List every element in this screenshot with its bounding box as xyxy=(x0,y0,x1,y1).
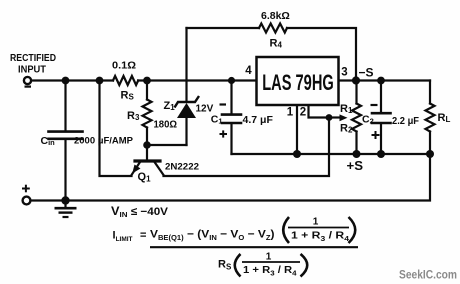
node: pin2 / wiper xyxy=(326,114,333,121)
svg-text:LAS 79HG: LAS 79HG xyxy=(262,70,334,95)
node: C2 top xyxy=(377,77,385,85)
node: R3 top xyxy=(143,77,151,85)
transistor Q1 base bar xyxy=(135,159,160,162)
svg-text:1 + R3 / R4: 1 + R3 / R4 xyxy=(243,265,297,278)
wire: C2 top lead xyxy=(380,81,382,113)
ground stub xyxy=(64,201,66,208)
input terminal minus xyxy=(24,77,31,84)
wire: -S rail from pin 3 xyxy=(339,79,430,81)
wire: input rail left segment xyxy=(31,79,113,81)
svg-text:1: 1 xyxy=(313,217,319,228)
resistor RL zigzag xyxy=(426,104,435,132)
formula numerator big right paren xyxy=(349,217,356,243)
svg-text:2.2 μF: 2.2 μF xyxy=(392,115,420,127)
svg-text:+S: +S xyxy=(347,158,364,173)
node: C1 tap xyxy=(228,77,235,84)
node: pin1 on +S rail xyxy=(293,150,301,158)
svg-text:1 + R3 / R4: 1 + R3 / R4 xyxy=(291,231,349,244)
formula denominator big left paren xyxy=(235,254,241,277)
ground symbol bars xyxy=(55,208,77,217)
node: base node xyxy=(143,141,151,149)
svg-text:−S: −S xyxy=(359,66,374,80)
resistor RL leads xyxy=(429,81,431,104)
potentiometer R1R2 zigzag xyxy=(352,104,361,132)
node: -S at R4 xyxy=(352,76,360,84)
wire: top wire left of R4 xyxy=(187,27,260,29)
label C1 minus xyxy=(220,103,227,105)
transistor Q1 collector diagonal xyxy=(155,162,164,175)
zener Z1 symbol xyxy=(175,96,200,118)
wire: Q1 base vertical xyxy=(146,145,148,160)
wire: Cin top lead xyxy=(64,81,66,131)
potentiometer R1R2 leads xyxy=(355,81,357,104)
wire: C1 bottom lead xyxy=(230,124,232,154)
transistor Q1 emitter diagonal xyxy=(132,162,141,175)
resistor R4 zigzag 6.8k xyxy=(259,24,287,33)
formula numerator small fraction bar xyxy=(288,227,349,229)
svg-text:3: 3 xyxy=(341,67,347,79)
transistor Q1 emitter arrowhead xyxy=(132,165,140,174)
node: emitter tap xyxy=(96,77,104,85)
svg-text:6.8kΩ: 6.8kΩ xyxy=(261,10,290,22)
svg-text:RECTIFIED: RECTIFIED xyxy=(10,53,56,64)
svg-text:180Ω: 180Ω xyxy=(154,119,178,131)
capacitor C1 plates xyxy=(222,113,241,116)
svg-text:INPUT: INPUT xyxy=(18,65,46,76)
wire: input rail right segment to pin4 xyxy=(138,79,256,81)
capacitor C2 plates xyxy=(372,112,391,115)
wire: C2 bottom lead xyxy=(380,124,382,154)
svg-text:0.1Ω: 0.1Ω xyxy=(112,61,136,72)
svg-text:SeekIC.com: SeekIC.com xyxy=(399,270,457,282)
node: Cin tap xyxy=(62,77,70,85)
node: pot bottom xyxy=(353,150,361,158)
wiper arrowhead into R1R2 xyxy=(340,114,348,121)
wire: +S rail xyxy=(232,153,431,155)
formula main fraction bar xyxy=(150,246,358,248)
resistor R3 180ohm vertical xyxy=(146,81,148,100)
svg-text:2: 2 xyxy=(300,107,306,119)
label C2 plus xyxy=(372,131,380,139)
wire: bottom return rail xyxy=(31,154,431,201)
wire: wiper arrow shaft xyxy=(329,116,341,118)
label C1 plus xyxy=(220,130,228,137)
wire: Cin bottom lead xyxy=(64,140,66,201)
svg-text:=: = xyxy=(140,230,146,242)
wire: top wire right of R4 down to -S node xyxy=(287,28,356,81)
IC box LAS 79HG xyxy=(257,57,339,105)
formula I LIMIT xyxy=(113,217,359,278)
svg-text:4.7 μF: 4.7 μF xyxy=(243,114,274,126)
wire: collector run to pin2 node xyxy=(164,118,330,177)
formula numerator big left paren xyxy=(283,217,289,243)
capacitor Cin plates xyxy=(49,130,83,133)
label C2 minus xyxy=(371,104,378,106)
resistor RS zigzag 0.1ohm xyxy=(113,76,138,85)
formula denominator small fraction bar xyxy=(242,261,300,263)
node: ground tap xyxy=(61,196,69,204)
wire: C1 top lead xyxy=(230,81,232,114)
node: C2 bottom xyxy=(377,150,385,158)
svg-text:4: 4 xyxy=(245,65,252,77)
svg-text:2000 μF/AMP: 2000 μF/AMP xyxy=(74,136,134,147)
svg-text:1: 1 xyxy=(266,252,272,263)
wire: pin 1 lead xyxy=(296,105,298,154)
node: RL bottom xyxy=(426,150,434,158)
input terminal plus xyxy=(23,197,31,205)
svg-text:1: 1 xyxy=(287,107,294,119)
formula denominator big right paren xyxy=(301,254,308,277)
svg-text:2N2222: 2N2222 xyxy=(165,162,199,173)
zener Z1 anode lead and bottom wire to base node xyxy=(185,118,187,146)
wire: emitter to rail xyxy=(100,81,132,177)
wire: zener vertical from top wire xyxy=(185,28,187,101)
wire: pin 2 lead xyxy=(309,105,330,118)
